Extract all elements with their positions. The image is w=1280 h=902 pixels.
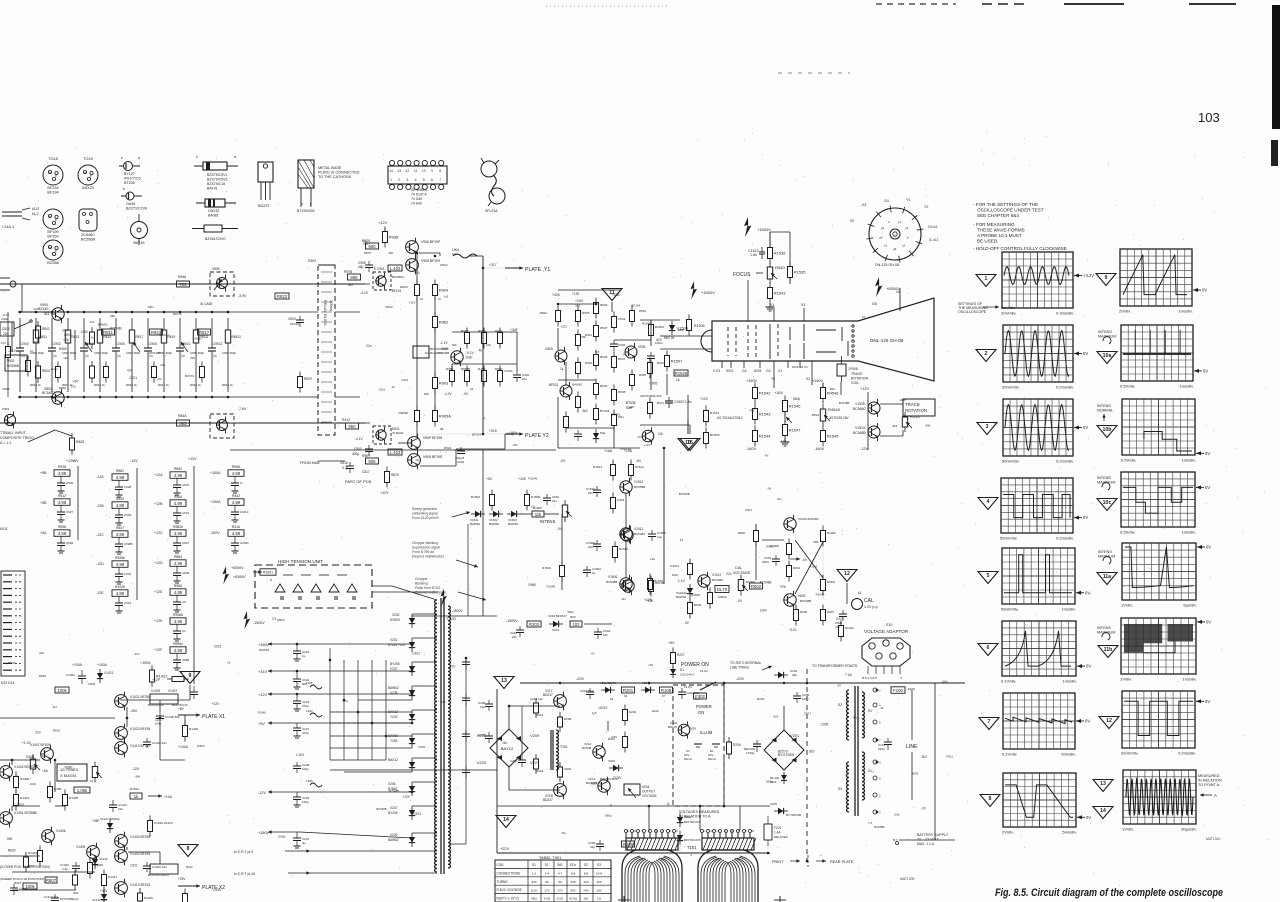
svg-text:-12V: -12V: [132, 767, 140, 771]
supply tap +5V: [258, 721, 300, 726]
hv flash symbol focus: [744, 217, 752, 237]
svg-text:703: 703: [179, 282, 187, 287]
diode V1502 BAW62: [489, 511, 503, 517]
wire hv bus: [468, 615, 497, 617]
svg-text:R829: R829: [8, 849, 16, 853]
svg-text:C921: C921: [836, 617, 844, 621]
wire att to delay 3: [228, 311, 300, 313]
svg-text:to C.R.T pt.3: to C.R.T pt.3: [234, 850, 253, 854]
svg-text:1n5: 1n5: [781, 439, 787, 443]
svg-text:4.99: 4.99: [174, 619, 183, 624]
transformer T102 core2: [857, 686, 859, 816]
wire ht input: [253, 571, 262, 573]
svg-text:b: b: [49, 246, 51, 250]
svg-text:V233 BZX617: V233 BZX617: [548, 614, 567, 618]
svg-text:4.99: 4.99: [174, 590, 183, 595]
svg-text:10-8: 10-8: [596, 872, 602, 876]
svg-text:+100A: +100A: [178, 745, 189, 749]
svg-text:560p: 560p: [278, 835, 285, 839]
svg-text:R960: R960: [495, 367, 503, 371]
wire att to delay 5: [300, 422, 318, 424]
svg-text:-12V: -12V: [860, 447, 868, 451]
svg-text:100n: 100n: [465, 355, 472, 359]
resistor R901: [415, 280, 420, 301]
resistor R602c: [750, 583, 763, 589]
resistor R8113: [225, 318, 241, 392]
waveform graph 5 (pulse pair): [1001, 548, 1090, 612]
wire ps to t101 3: [739, 806, 741, 830]
wire ps v203: [679, 827, 681, 831]
svg-text:3 G1: 3 G1: [713, 369, 720, 373]
svg-text:V1512: V1512: [634, 480, 643, 484]
svg-text:6/G5 G3 X1: 6/G5 G3 X1: [792, 365, 808, 369]
svg-text:22n: 22n: [62, 329, 68, 333]
svg-text:400µ: 400µ: [352, 452, 359, 456]
svg-text:560p: 560p: [567, 610, 574, 614]
transformer T102 secondary S1: [862, 692, 864, 738]
wire +1500V to focus: [769, 232, 771, 243]
svg-text:4k7: 4k7: [425, 351, 430, 355]
svg-text:V232: V232: [392, 613, 400, 617]
svg-text:12k: 12k: [272, 617, 277, 621]
svg-text:5-8: 5-8: [571, 872, 576, 876]
svg-text:C817: C817: [745, 508, 752, 512]
svg-text:BAW62: BAW62: [489, 522, 499, 526]
svg-text:BC559B: BC559B: [634, 485, 645, 489]
svg-text:R549: R549: [585, 361, 592, 365]
waveform graph 7 (step ramp): [1002, 693, 1090, 757]
svg-text:BC548B: BC548B: [874, 825, 884, 829]
svg-text:V1506: V1506: [608, 575, 617, 579]
delay line tick: [321, 391, 332, 393]
wire y out v5: [434, 389, 436, 410]
svg-text:R9C2: R9C2: [400, 285, 408, 289]
svg-text:R828: R828: [76, 440, 84, 444]
svg-text:20µs/div.: 20µs/div.: [1181, 827, 1197, 832]
svg-text:C921: C921: [379, 387, 386, 391]
potentiometer R4545 astig: [820, 404, 840, 426]
svg-text:-4.2V: -4.2V: [444, 392, 452, 396]
svg-text:0.2ms/div.: 0.2ms/div.: [1056, 459, 1074, 464]
wire fuse lead: [877, 689, 891, 691]
svg-text:PRINT: PRINT: [772, 860, 784, 864]
svg-text:+12V: +12V: [378, 221, 387, 225]
resistor R1427: [102, 870, 107, 891]
capacitor C210 eht: [510, 626, 524, 639]
resistor R547: [112, 531, 128, 538]
svg-text:0V: 0V: [1206, 545, 1211, 550]
svg-text:0V: 0V: [1083, 425, 1088, 430]
svg-text:22n: 22n: [588, 491, 593, 495]
svg-text:b: b: [84, 171, 86, 175]
diode V203 ps: [609, 765, 623, 771]
svg-text:-25V: -25V: [130, 709, 138, 713]
resistor R823v: [150, 329, 163, 335]
svg-text:V1437: V1437: [168, 689, 177, 693]
svg-text:C802 560p: C802 560p: [94, 351, 109, 355]
svg-text:BC556: BC556: [710, 433, 720, 437]
svg-text:DY800: DY800: [390, 618, 400, 622]
svg-text:S2: S2: [584, 863, 588, 867]
svg-text:INTENS: INTENS: [540, 519, 556, 524]
test point 8: [980, 795, 1000, 807]
svg-text:L202: L202: [306, 709, 313, 713]
svg-text:C817: C817: [363, 242, 370, 246]
wire vertical bus: [385, 660, 387, 760]
wire y top link2: [439, 253, 441, 256]
resistor R562: [170, 472, 186, 479]
resistor R1543: [768, 283, 787, 304]
terminal circle T102: [862, 720, 877, 724]
svg-text:C919: C919: [124, 601, 132, 605]
svg-text:R1535: R1535: [794, 270, 807, 275]
svg-text:+5A: +5A: [42, 769, 49, 773]
svg-text:BC579/BE(2x): BC579/BE(2x): [60, 897, 79, 901]
svg-text:3: 3: [986, 424, 989, 430]
diode V244 BAX50: [409, 734, 415, 748]
svg-text:4: 4: [987, 499, 990, 505]
resistor R310: [623, 732, 628, 753]
svg-text:R8113: R8113: [232, 335, 241, 339]
wire ps top rail: [520, 682, 965, 684]
wire unb t2: [625, 540, 627, 578]
svg-text:2C546C: 2C546C: [81, 233, 95, 237]
svg-text:V1412 BZX: V1412 BZX: [92, 898, 107, 902]
svg-text:R815: R815: [104, 335, 112, 339]
svg-text:R955B: R955B: [461, 367, 470, 371]
svg-text:67: 67: [662, 694, 666, 698]
svg-text:unblanking signal: unblanking signal: [412, 512, 438, 516]
svg-text:62: 62: [610, 697, 614, 701]
diode pair V1429/V1437 top: [148, 689, 188, 707]
resistor R1535: [788, 262, 807, 283]
relay box top (attenuator): [210, 267, 234, 296]
transistor V900 inner: [376, 273, 386, 289]
wire trace rot a: [880, 403, 903, 405]
wire tap to diode: [297, 831, 412, 833]
resistor R884: [170, 560, 186, 567]
svg-text:V903: V903: [17, 803, 24, 807]
waveform graph 12 (pulses down): [1121, 691, 1210, 756]
svg-text:BD237: BD237: [543, 798, 553, 802]
test point 8 (x amp): [178, 845, 198, 857]
svg-text:R522: R522: [385, 305, 393, 309]
resistor R202m: [623, 705, 628, 726]
resistor R527: [594, 321, 599, 342]
svg-text:X2: X2: [806, 377, 810, 381]
svg-text:k: k: [196, 155, 198, 159]
svg-text:+16V: +16V: [575, 299, 584, 303]
svg-text:3k3: 3k3: [582, 409, 587, 413]
svg-text:R1503: R1503: [471, 495, 480, 499]
svg-text:0V: 0V: [1202, 288, 1207, 293]
wire x col v4: [184, 715, 186, 725]
svg-text:BZX79: BZX79: [591, 782, 601, 786]
resistor R1426: [55, 687, 69, 693]
svg-text:BAW62: BAW62: [388, 686, 399, 690]
capacitor C920 22n: [513, 371, 530, 382]
wire xamp h1: [12, 759, 40, 761]
case outline metal base transistor BTX90: [297, 160, 315, 213]
wire att to delay 2: [300, 311, 318, 313]
diode V233 BZX617: [549, 621, 563, 627]
svg-text:BF194: BF194: [472, 433, 481, 437]
resistor R1529z: [704, 428, 709, 449]
svg-text:-30.5V: -30.5V: [598, 706, 608, 710]
svg-text:BC548B: BC548B: [760, 581, 772, 585]
svg-text:C803: C803: [288, 317, 296, 321]
svg-text:BA082: BA082: [208, 214, 219, 218]
wire y mirror v: [384, 228, 386, 232]
svg-text:R542: R542: [116, 497, 124, 501]
svg-text:0.3ms/div.: 0.3ms/div.: [1056, 311, 1074, 316]
svg-text:C904: C904: [1, 317, 9, 321]
svg-text:(beyond multivibrator): (beyond multivibrator): [412, 555, 444, 559]
case outline DIP-14 IC: [388, 160, 447, 205]
svg-text:R(20°C ± 10°C): R(20°C ± 10°C): [497, 897, 519, 901]
potentiometer R1425: [92, 762, 102, 783]
svg-text:BZX79/C15: BZX79/C15: [148, 703, 164, 707]
resistor trig x578y402: [576, 392, 581, 413]
test point 14: [1093, 807, 1113, 819]
svg-text:BAX12: BAX12: [388, 758, 398, 762]
svg-text:D1: D1: [680, 668, 684, 672]
resistor R525: [576, 306, 581, 327]
resistor R1442c: [24, 852, 29, 872]
wire bridge2 top: [783, 706, 785, 730]
resistor R1434b: [38, 846, 43, 867]
wire tap link: [296, 791, 298, 793]
svg-text:-12D: -12D: [96, 562, 104, 566]
component value labels (y output area): [363, 240, 519, 462]
svg-text:C817: C817: [804, 711, 812, 715]
capacitor C200 ps: [478, 700, 493, 711]
wire y out v1: [416, 253, 418, 284]
capacitor C816: [340, 461, 354, 473]
svg-text:Pulse from B70/2: Pulse from B70/2: [415, 586, 440, 590]
wire tap to diode: [297, 722, 412, 724]
svg-text:4.99: 4.99: [116, 503, 125, 508]
wire tap bus2: [300, 670, 412, 672]
svg-text:BC548C: BC548C: [853, 407, 866, 411]
wire trig h1: [558, 303, 596, 305]
svg-text:V1413 BF153: V1413 BF153: [130, 883, 150, 887]
wire y bot link3: [456, 448, 505, 450]
resistor R542: [112, 502, 128, 509]
wire crt left column: [666, 374, 668, 395]
transistor D901 inner: [376, 427, 386, 443]
case outline diode BAY45: [131, 214, 148, 245]
svg-text:C923: C923: [617, 498, 625, 502]
delay line tick: [321, 281, 332, 283]
svg-text:820: 820: [190, 356, 195, 360]
svg-text:C9012: C9012: [213, 342, 223, 346]
svg-text:R1621: R1621: [130, 787, 139, 791]
switch stroke: [28, 430, 55, 442]
svg-text:BC548B: BC548B: [376, 807, 386, 811]
svg-text:L201: L201: [306, 681, 313, 685]
resistor R852 lower: [56, 362, 61, 383]
svg-text:1ms/div.: 1ms/div.: [1062, 679, 1077, 684]
transistor V903b input: [4, 411, 15, 428]
resistor R8196 lower: [200, 362, 205, 383]
resistor R955B: [465, 366, 470, 387]
capacitor C204: [678, 688, 701, 699]
capacitor C900: [16, 318, 29, 392]
svg-text:C213 10µ: C213 10µ: [530, 697, 543, 701]
supply tap +160V: [258, 642, 300, 647]
svg-text:R412: R412: [342, 418, 350, 422]
svg-text:R912: R912: [947, 755, 954, 759]
svg-text:4-7: 4-7: [558, 872, 563, 876]
resistor R1007: [821, 575, 826, 596]
wire ybank top2: [516, 332, 518, 371]
wire eht diode link: [412, 709, 437, 711]
svg-text:+12C: +12C: [154, 531, 163, 535]
resistor R537m: [612, 352, 617, 373]
transformer T102 primary S2: [847, 690, 849, 740]
test point 11a: [1097, 573, 1117, 585]
svg-text:IN RELATION: IN RELATION: [1198, 779, 1222, 783]
transistor V1511 BC548C: [620, 525, 632, 543]
svg-text:1k: 1k: [392, 385, 396, 389]
ground below focus pot: [766, 303, 775, 311]
svg-text:110V: 110V: [531, 888, 538, 892]
svg-text:BT208: BT208: [124, 181, 135, 185]
svg-text:k112: k112: [32, 207, 39, 211]
wire sweep h616: [412, 615, 497, 617]
svg-text:R960: R960: [197, 744, 205, 748]
svg-text:+5V: +5V: [157, 377, 162, 381]
svg-text:R530: R530: [600, 384, 608, 388]
resistor R526: [594, 298, 599, 319]
svg-text:74 S40: 74 S40: [411, 202, 422, 206]
svg-text:k1: k1: [858, 591, 862, 595]
svg-text:1n: 1n: [30, 349, 34, 353]
wire y out v4: [434, 328, 436, 377]
wire focus column down: [747, 280, 749, 321]
svg-text:From DL20 pehl B: From DL20 pehl B: [412, 516, 440, 520]
svg-text:BF521: BF521: [549, 383, 559, 387]
wire input v1: [7, 312, 9, 346]
svg-text:22n: 22n: [777, 497, 782, 501]
wire ps v202: [679, 806, 681, 813]
resistor R928: [54, 470, 70, 477]
capacitor C904: [80, 318, 93, 392]
resistor R912: [346, 423, 359, 429]
svg-text:1V/div.: 1V/div.: [1122, 827, 1134, 832]
wire bus h row2: [344, 699, 412, 701]
hv flash symbol anode: [875, 277, 883, 297]
wire r1535 top: [789, 232, 791, 266]
wire x bus down: [229, 440, 231, 450]
resistor R806l: [26, 356, 31, 377]
svg-text:TRACE: TRACE: [905, 402, 920, 407]
resistor R807c: [45, 877, 57, 883]
svg-text:R813 1k: R813 1k: [126, 383, 137, 387]
resistor R1547: [783, 420, 802, 441]
switch S801: [14, 320, 32, 329]
svg-text:68k: 68k: [110, 314, 115, 318]
svg-text:OUTPUT: OUTPUT: [642, 790, 655, 794]
wire t201 v2: [559, 777, 561, 784]
svg-text:L.422: L.422: [390, 450, 401, 455]
wire unb t3: [612, 476, 614, 497]
wire x plate x1 link: [185, 714, 200, 716]
wire plate x1: [178, 714, 200, 716]
svg-text:C921: C921: [214, 644, 222, 648]
svg-text:D902: D902: [308, 259, 316, 263]
svg-text:60mA: 60mA: [684, 757, 692, 761]
svg-text:R105: R105: [661, 688, 672, 693]
diode V247 BY206: [409, 806, 415, 820]
capacitor C209 ps: [478, 732, 493, 743]
wire unblank h: [520, 513, 532, 515]
svg-text:S3: S3: [597, 863, 601, 867]
svg-text:4.99: 4.99: [174, 561, 183, 566]
svg-text:R564: R564: [174, 495, 182, 499]
resistor R1011: [688, 559, 693, 580]
diode V202 bzx: [677, 813, 683, 827]
wire ps mid rail: [497, 805, 770, 807]
wire plate x2: [178, 885, 200, 887]
svg-text:TO R373 INTERNAL: TO R373 INTERNAL: [730, 661, 762, 665]
svg-text:+12V: +12V: [212, 702, 221, 706]
resistor trig x650y368: [648, 358, 653, 379]
box TRACE ROTATION control: [903, 399, 935, 416]
svg-text:BAW62: BAW62: [98, 322, 108, 326]
svg-text:R960: R960: [766, 545, 774, 549]
capacitor C207: [580, 688, 595, 699]
svg-text:+31V: +31V: [258, 670, 267, 674]
svg-text:Y2: Y2: [771, 377, 775, 381]
battery C1 20V: [684, 744, 702, 761]
svg-text:R1507: R1507: [671, 359, 684, 364]
svg-text:17V: 17V: [557, 888, 562, 892]
svg-text:470µ: 470µ: [302, 731, 309, 735]
wire trig v3: [565, 362, 567, 385]
svg-text:5k6: 5k6: [452, 343, 457, 347]
wire bus cross: [330, 747, 412, 749]
wire xamp v1: [11, 760, 13, 765]
svg-text:4k7: 4k7: [53, 705, 58, 709]
svg-text:5ms/div.: 5ms/div.: [1062, 830, 1077, 835]
svg-text:b: b: [49, 215, 51, 219]
svg-text:-0V: -0V: [127, 369, 133, 373]
svg-text:-0.5V: -0.5V: [80, 330, 89, 334]
capacitor C903 330A: [762, 555, 780, 566]
svg-text:IC x12: IC x12: [929, 238, 938, 242]
svg-text:V1407 BF199: V1407 BF199: [30, 743, 50, 747]
svg-text:R1549: R1549: [827, 434, 840, 439]
svg-text:TO THE CATHODE: TO THE CATHODE: [318, 175, 352, 179]
svg-text:-3.9V: -3.9V: [238, 294, 247, 298]
table TABEL T901: [495, 860, 611, 902]
wire cal v2: [755, 542, 757, 580]
test point 9 (x amp): [180, 672, 200, 684]
wire t201 v1: [559, 707, 561, 717]
transistor V808 relay bottom: [217, 417, 228, 434]
svg-text:+34F: +34F: [510, 328, 518, 332]
wire input v2: [7, 358, 9, 397]
svg-text:-20V: -20V: [576, 677, 584, 681]
svg-text:JY506: JY506: [848, 367, 858, 371]
svg-text:X1: X1: [778, 369, 782, 373]
svg-text:BD237: BD237: [668, 725, 678, 729]
capacitor C1513: [748, 247, 765, 259]
svg-text:11b: 11b: [1104, 647, 1113, 653]
svg-text:1ms/div.: 1ms/div.: [1178, 309, 1193, 314]
